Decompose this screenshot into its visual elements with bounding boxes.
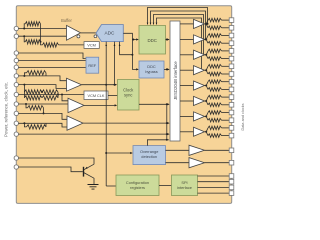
resistor R3 <box>43 43 59 47</box>
wire split up 6 <box>206 113 208 117</box>
resistor lane 0 upper <box>208 18 222 22</box>
transistor Q1 emitter arrow <box>85 167 88 169</box>
wire lane 2 upper to pin <box>222 50 230 52</box>
pin left P9 <box>14 102 18 106</box>
node B1 <box>23 75 25 77</box>
VCM CLK block <box>84 91 108 100</box>
node R7 to wire <box>43 112 45 114</box>
pin right out3a <box>229 64 234 69</box>
wire driver 6 out <box>205 115 207 117</box>
pin right spi3 <box>229 185 234 190</box>
wire driver 5 out <box>205 100 207 102</box>
wire DDC top bus 1 <box>148 8 208 25</box>
wire SYS+ <box>18 113 67 119</box>
svg-text:Power, reference, clock, etc.: Power, reference, clock, etc. <box>3 82 8 137</box>
pin right out5a <box>229 95 234 100</box>
wire split up 5 <box>206 97 208 101</box>
node bus 3 lane tap <box>203 54 205 56</box>
output driver A8 <box>194 81 205 90</box>
wire lane 0 lower to pin <box>222 27 230 29</box>
clock buffer A2 <box>68 98 84 112</box>
node B-85 <box>114 84 116 86</box>
pin right out6b <box>229 118 234 123</box>
node A-85 <box>105 84 107 86</box>
wire ref pin 2 <box>18 60 86 62</box>
arrow bypass in <box>136 68 139 70</box>
node sysref <box>166 133 168 135</box>
wire CLK+ <box>18 103 68 105</box>
node bypass out <box>166 68 168 70</box>
wire config feed <box>106 185 116 187</box>
wire split down 2 <box>206 55 208 59</box>
wire ref pin 1 <box>18 53 86 59</box>
buffer bump circle <box>77 35 80 38</box>
pin right out7b <box>229 133 234 138</box>
wire riser R8 <box>24 123 26 127</box>
wire VCM CLK out <box>108 95 118 97</box>
wire driver 3 out <box>205 69 207 71</box>
wire lane 5 upper to pin <box>222 96 230 98</box>
pin left P6 <box>14 74 18 78</box>
wire driver 1 out <box>205 38 207 40</box>
arrow DDC out jesd <box>167 38 170 40</box>
pin right out2b <box>229 56 234 61</box>
wire clock sync out <box>139 103 169 105</box>
wire R7 down <box>43 108 45 114</box>
node bypass mid <box>131 54 133 56</box>
buffer amplifier A1 <box>67 25 81 40</box>
wire ADC out to DDC <box>123 33 138 39</box>
wire VCMCLK pin <box>18 94 84 96</box>
wire JESD input bus vertical <box>166 104 168 140</box>
REF block <box>86 57 99 73</box>
pin right out2a <box>229 49 234 54</box>
wire collector feed <box>18 158 94 164</box>
arrow bus 1 into DDC <box>147 23 149 25</box>
wire SPI pin 1 <box>198 175 230 177</box>
resistor R5b <box>42 90 58 94</box>
wire split down 3 <box>206 70 208 74</box>
node driver 2 split <box>205 54 207 56</box>
wire lane 1 lower to pin <box>222 42 230 44</box>
wire config to SPI <box>159 185 172 187</box>
pin right status1 <box>229 148 234 153</box>
node on VIN- wire <box>23 35 25 37</box>
wire split down 4 <box>206 86 208 90</box>
wire driver 4 out <box>205 85 207 87</box>
IC chip body <box>16 6 231 204</box>
node DDC out <box>166 39 168 41</box>
wire R3 to VCM <box>59 44 85 46</box>
node bus 2 lane tap <box>205 38 207 40</box>
ADC input bubble <box>94 35 97 38</box>
wire R1 right riser <box>40 24 42 42</box>
resistor lane 4 lower <box>208 88 222 92</box>
node driver 4 split <box>205 85 207 87</box>
pin left P5 <box>14 65 18 69</box>
wire lane 2 lower to pin <box>222 58 230 60</box>
pin left P1 <box>14 26 18 30</box>
svg-text:VCM: VCM <box>87 42 96 47</box>
output driver A10 <box>194 112 205 121</box>
wire lane 4 lower to pin <box>222 88 230 90</box>
resistor lane 6 lower <box>208 118 222 122</box>
wire base feed <box>18 167 82 172</box>
pin left P2 <box>14 34 18 38</box>
output driver A11 <box>194 127 205 136</box>
pin right out7a <box>229 126 234 131</box>
pin left P8 <box>14 92 18 96</box>
svg-text:detection: detection <box>141 154 157 159</box>
resistor R4 <box>27 71 47 75</box>
node R1-R2 junction <box>40 41 42 43</box>
resistor R6b <box>42 96 58 100</box>
node B2 <box>23 84 25 86</box>
resistor lane 5 upper <box>208 95 222 99</box>
output driver A4 <box>194 19 205 28</box>
svg-text:DDC: DDC <box>147 38 157 43</box>
wire JESD to driver 5 <box>180 100 194 102</box>
wire split up 3 <box>206 66 208 70</box>
node driver 5 split <box>205 100 207 102</box>
status driver A13 <box>189 158 205 168</box>
arrow into clock sync 1 <box>115 84 118 86</box>
resistor R8 <box>27 125 47 129</box>
pin left P14 <box>14 165 18 169</box>
output driver A5 <box>194 35 205 44</box>
Overrange detection block <box>133 146 166 165</box>
wire bypass drop <box>132 40 137 70</box>
pin right status2 <box>229 160 234 165</box>
svg-text:ADC: ADC <box>105 30 116 35</box>
wire lane 7 upper to pin <box>222 127 230 129</box>
wire SPI pin 2 <box>198 181 230 183</box>
resistor lane 4 upper <box>208 80 222 84</box>
node A3 jesd <box>166 122 168 124</box>
wire R5-R6 left tie <box>23 92 25 98</box>
arrow bus 2 into DDC <box>150 23 152 25</box>
svg-text:Buffer: Buffer <box>61 18 72 23</box>
wire split up 7 <box>206 128 208 132</box>
vcm buffer A4 <box>67 78 82 91</box>
wire ADC down A <box>105 42 107 186</box>
svg-text:Data and clocks: Data and clocks <box>241 103 245 130</box>
resistor lane 0 lower <box>208 26 222 30</box>
node overrange jesd <box>166 139 168 141</box>
wire DDC top bus 2 <box>151 11 206 39</box>
output driver A9 <box>194 96 205 105</box>
wire split up 2 <box>206 51 208 55</box>
wire driver 0 out <box>205 23 207 25</box>
pin right out4a <box>229 79 234 84</box>
svg-text:interface: interface <box>177 185 192 190</box>
wire overrange out 1 <box>166 149 190 151</box>
arrow up C <box>119 44 121 46</box>
svg-text:bypass: bypass <box>145 69 157 74</box>
DDC block <box>139 26 166 55</box>
pin right out0a <box>229 18 234 23</box>
wire B2 riser <box>23 85 25 92</box>
wire JESD to driver 4 <box>180 85 194 87</box>
resistor R6a <box>24 96 42 100</box>
node driver 7 split <box>205 131 207 133</box>
node R5 right <box>57 94 59 96</box>
pin right out1b <box>229 41 234 46</box>
node on VIN+ wire <box>23 28 25 30</box>
DDC bypass block <box>139 61 164 78</box>
wire bypass out <box>164 68 169 70</box>
transistor Q1 collector <box>84 173 94 185</box>
pin left P10 <box>14 111 18 115</box>
wire junction to R3 <box>41 42 43 45</box>
pin right out5b <box>229 103 234 108</box>
wire lane 0 upper to pin <box>222 19 230 21</box>
resistor lane 1 upper <box>208 34 222 38</box>
wire SYS- <box>18 123 67 127</box>
arrow overrange in <box>130 152 133 154</box>
svg-text:sync: sync <box>124 93 132 98</box>
ground symbol <box>88 185 99 190</box>
wire riser R1 left <box>24 24 25 29</box>
resistor R1 <box>25 22 40 26</box>
wire ref pin 3 <box>18 67 86 69</box>
pin left P4 <box>14 58 18 62</box>
wire lane 7 lower to pin <box>222 135 230 137</box>
resistor lane 2 upper <box>208 49 222 53</box>
wire JESD to driver 2 <box>180 54 194 56</box>
wire B1 <box>18 76 66 81</box>
wire R4 end <box>45 73 47 76</box>
wire SPI pin 4 <box>198 192 230 194</box>
node overrange feed <box>105 152 107 154</box>
wire driver 7 out <box>205 131 207 133</box>
pin right spi1 <box>229 174 234 179</box>
wire A4 out to clock sync <box>82 84 117 86</box>
resistor lane 7 lower <box>208 134 222 138</box>
pin left P13 <box>14 156 18 160</box>
transistor Q1 base bar <box>83 167 85 177</box>
arrow bus 3 into DDC <box>153 23 155 25</box>
wire split down 1 <box>206 39 208 43</box>
wire status 1 to pin <box>205 149 230 151</box>
wire lane 5 lower to pin <box>222 104 230 106</box>
node driver 1 split <box>205 38 207 40</box>
wire A3 to JESD <box>83 122 169 124</box>
node CLK+ <box>25 103 27 105</box>
pin right out0b <box>229 26 234 31</box>
pin left P11 <box>14 121 18 125</box>
resistor lane 5 lower <box>208 103 222 107</box>
wire VIN- to buffer <box>18 35 66 37</box>
wire lane 3 upper to pin <box>222 65 230 67</box>
wire JESD to driver 6 <box>180 115 194 117</box>
wire lane 6 lower to pin <box>222 119 230 121</box>
node SYS- <box>23 122 25 124</box>
resistor R7 <box>28 106 44 110</box>
wire DDC top bus 3 <box>154 15 204 55</box>
pin right out1a <box>229 33 234 38</box>
resistor lane 3 upper <box>208 65 222 69</box>
wire status 2 to pin <box>205 162 230 164</box>
wire split up 4 <box>206 82 208 86</box>
node driver 3 split <box>205 69 207 71</box>
node driver 0 split <box>205 23 207 25</box>
resistor lane 6 upper <box>208 111 222 115</box>
clock buffer A3 <box>67 116 83 130</box>
VCM block <box>84 42 99 49</box>
wire split down 5 <box>206 101 208 105</box>
wire A2 to clock sync <box>84 104 116 106</box>
wire JESD to driver 0 <box>180 23 194 25</box>
arrow sysref jesd <box>167 133 170 135</box>
arrow A3 jesd <box>167 122 170 124</box>
output driver A6 <box>194 50 205 59</box>
wire B2 <box>18 85 66 89</box>
wire branch to Ta <box>62 95 68 101</box>
ADC converter U1 <box>96 25 123 42</box>
node R5 mid <box>41 91 43 93</box>
wire riser R2 left <box>24 36 25 42</box>
arrow into clock sync 2 <box>115 104 118 106</box>
resistor lane 1 lower <box>208 41 222 45</box>
wire split down 6 <box>206 116 208 120</box>
wire split up 1 <box>206 36 208 40</box>
JESD204B interface block <box>170 21 180 141</box>
wire overrange out 2 <box>166 162 190 164</box>
wire lane 1 upper to pin <box>222 35 230 37</box>
SPI interface block <box>172 175 198 196</box>
pin right out6a <box>229 110 234 115</box>
node DDC in <box>132 39 134 41</box>
Clock sync block <box>118 80 140 111</box>
wire R6 right tie <box>57 92 59 98</box>
pin right spi4 <box>229 191 234 196</box>
status driver A12 <box>189 145 205 155</box>
wire DDC top bus 4 <box>157 18 202 70</box>
wire overrange feed <box>106 152 132 154</box>
wire lane 3 lower to pin <box>222 73 230 75</box>
svg-text:REF: REF <box>88 63 96 68</box>
wire SPI pin 3 <box>198 186 230 188</box>
pin right spi2 <box>229 179 234 184</box>
output driver A7 <box>194 66 205 75</box>
pin right out4b <box>229 87 234 92</box>
wire riser R4 <box>24 73 26 76</box>
resistor lane 7 upper <box>208 126 222 130</box>
pin left P7 <box>14 82 18 86</box>
wire split down 0 <box>206 24 208 28</box>
arrow bus 4 into DDC <box>156 23 158 25</box>
svg-text:JESD204B interface: JESD204B interface <box>173 61 178 100</box>
wire DDC out <box>166 39 169 41</box>
wire cross riser <box>26 104 28 108</box>
pin left P3 <box>14 51 18 55</box>
arrow up A <box>105 44 107 46</box>
wire ADC down B <box>114 42 116 85</box>
resistor R5a <box>24 90 42 94</box>
resistor lane 3 lower <box>208 72 222 76</box>
wire split up 0 <box>206 20 208 24</box>
node branch Ta <box>61 94 63 96</box>
wire lane 4 upper to pin <box>222 81 230 83</box>
wire sysref pin to JESD <box>18 133 168 135</box>
node clock sync out <box>166 103 168 105</box>
svg-text:registers: registers <box>130 185 145 190</box>
resistor R2 <box>25 40 40 44</box>
wire JESD to driver 1 <box>180 38 194 40</box>
wire lane 6 upper to pin <box>222 112 230 114</box>
wire split down 7 <box>206 132 208 136</box>
wire ADC down C <box>120 42 133 55</box>
wire VIN+ to buffer <box>18 28 66 30</box>
transistor Q1 emitter <box>84 164 94 170</box>
wire JESD to driver 3 <box>180 69 194 71</box>
Configuration registers block <box>116 175 159 196</box>
wire JESD to driver 7 <box>180 131 194 133</box>
arrow bypass out jesd <box>167 68 170 70</box>
svg-text:VCM CLK: VCM CLK <box>88 94 105 98</box>
pin left P12 <box>14 132 18 136</box>
arrow DDC in <box>136 38 139 40</box>
node driver 6 split <box>205 115 207 117</box>
arrow up B <box>114 44 116 46</box>
arrow clock sync jesd <box>167 103 170 105</box>
resistor lane 2 lower <box>208 57 222 61</box>
wire R8 end <box>45 123 47 127</box>
wire buffer to ADC <box>81 32 97 34</box>
wire driver 2 out <box>205 54 207 56</box>
node bus 1 lane tap <box>207 23 209 25</box>
pin right out3b <box>229 72 234 77</box>
node bus 4 lane tap <box>201 69 203 71</box>
wire overrange to JESD <box>147 140 168 146</box>
